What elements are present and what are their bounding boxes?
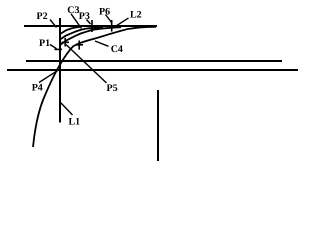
svg-text:P3: P3 <box>79 11 90 22</box>
tick P1 on L1 <box>55 48 63 50</box>
svg-text:P1: P1 <box>39 38 50 49</box>
pointer L1 <box>61 103 73 116</box>
curve 2 (labelled C3) <box>60 27 103 39</box>
horizontal line A <box>26 60 282 62</box>
svg-text:C3: C3 <box>67 5 79 16</box>
pointer P6 <box>106 15 112 23</box>
curve 1 (innermost) <box>60 27 80 34</box>
pointer P5 <box>66 45 107 84</box>
svg-text:P4: P4 <box>32 83 43 94</box>
svg-text:P5: P5 <box>107 83 118 94</box>
curve 4 (labelled C4, large curve) <box>33 27 156 147</box>
svg-text:P6: P6 <box>99 7 110 18</box>
horizontal line B <box>7 69 298 71</box>
svg-text:L1: L1 <box>69 116 81 127</box>
svg-text:P2: P2 <box>37 11 48 22</box>
pointer L2 <box>116 18 129 26</box>
tick P3 on L2 <box>91 20 93 32</box>
tick P6 on L2 <box>111 20 113 32</box>
pointer C4 <box>95 41 109 46</box>
pointer P1 <box>50 45 57 49</box>
plus mark 1 <box>62 38 70 47</box>
line L1 (vertical asymptote) <box>59 18 61 123</box>
curve 3 <box>60 27 121 45</box>
plus mark 2 <box>76 41 84 50</box>
pointer P3 <box>87 20 91 25</box>
svg-text:L2: L2 <box>130 9 142 20</box>
pointer P2 <box>50 20 57 28</box>
svg-text:C4: C4 <box>111 44 123 55</box>
right vertical line <box>157 90 159 161</box>
pointer C3 <box>71 14 82 29</box>
pointer P4 <box>39 69 60 82</box>
line L2 (top horizontal asymptote) <box>24 25 157 27</box>
